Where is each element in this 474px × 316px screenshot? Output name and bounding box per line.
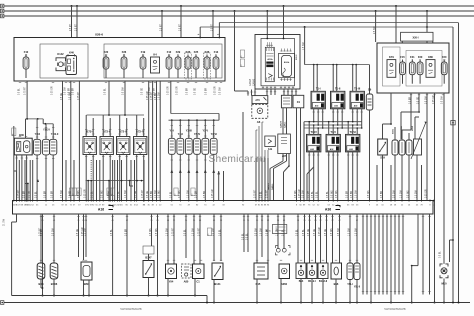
svg-text:Shemicar.ru: Shemicar.ru	[209, 154, 266, 165]
svg-text:T1-II: T1-II	[335, 87, 341, 91]
svg-text:0.5 SW: 0.5 SW	[338, 228, 340, 236]
svg-text:0.5 SW: 0.5 SW	[303, 190, 305, 198]
svg-text:0.5 BL: 0.5 BL	[261, 191, 263, 198]
svg-text:0.5 BR: 0.5 BR	[151, 191, 153, 198]
svg-text:K80: K80	[428, 55, 433, 59]
svg-text:31 SW: 31 SW	[4, 218, 6, 226]
svg-text:0.35 GR: 0.35 GR	[299, 189, 301, 198]
svg-text:0.5 BR: 0.5 BR	[351, 191, 353, 198]
svg-text:F13: F13	[214, 50, 219, 54]
svg-text:0.5 BL: 0.5 BL	[170, 191, 172, 198]
svg-text:F26: F26	[122, 50, 127, 54]
svg-text:0.5 WS: 0.5 WS	[159, 190, 161, 198]
svg-text:0.5 SW: 0.5 SW	[53, 228, 55, 236]
svg-text:0.5 BL: 0.5 BL	[36, 191, 38, 198]
svg-text:F15: F15	[400, 55, 405, 59]
svg-text:0.5 BR: 0.5 BR	[204, 191, 206, 198]
svg-text:0.75 RT: 0.75 RT	[173, 227, 175, 236]
svg-text:Y102-I: Y102-I	[43, 130, 50, 132]
svg-text:B141: B141	[214, 282, 221, 286]
svg-text:C9: C9	[368, 88, 372, 92]
svg-text:0.5 BR: 0.5 BR	[126, 229, 128, 236]
svg-text:0.75 RT: 0.75 RT	[142, 189, 144, 198]
svg-text:0.5 GE: 0.5 GE	[325, 228, 327, 236]
svg-text:X26-6: X26-6	[95, 32, 103, 36]
svg-text:0.35 GR: 0.35 GR	[85, 189, 87, 198]
svg-text:Y104: Y104	[35, 133, 41, 136]
svg-text:0.5 BR: 0.5 BR	[45, 191, 47, 198]
svg-text:A10b: A10b	[267, 58, 273, 61]
svg-text:0.5 WS: 0.5 WS	[179, 190, 181, 198]
svg-text:0.5 GE: 0.5 GE	[29, 190, 31, 198]
svg-text:0.5 BL: 0.5 BL	[185, 229, 187, 236]
svg-text:0.5 BR: 0.5 BR	[52, 191, 54, 198]
svg-text:F19: F19	[141, 50, 146, 54]
svg-text:C1: C1	[196, 280, 200, 284]
svg-text:CAN-H: CAN-H	[280, 121, 283, 128]
svg-text:1.0 SW: 1.0 SW	[159, 92, 161, 100]
svg-text:0.5 BL: 0.5 BL	[243, 233, 245, 240]
svg-text:0.5 BL: 0.5 BL	[312, 191, 314, 198]
svg-text:0.5 GE: 0.5 GE	[135, 190, 137, 198]
svg-text:CAN-B: CAN-B	[252, 78, 255, 86]
svg-text:0.35 GR: 0.35 GR	[177, 86, 179, 95]
svg-text:0.5 BL: 0.5 BL	[118, 191, 120, 198]
svg-text:F10: F10	[24, 50, 29, 54]
svg-text:0.5 BL: 0.5 BL	[19, 88, 21, 95]
svg-text:0.5 GE: 0.5 GE	[142, 87, 144, 95]
svg-text:0.35 GR: 0.35 GR	[215, 86, 217, 95]
svg-text:0.5 WS: 0.5 WS	[102, 190, 104, 198]
svg-text:2.5 RT: 2.5 RT	[161, 24, 163, 31]
svg-text:0.5 SW: 0.5 SW	[442, 96, 444, 104]
svg-text:0.5 SW: 0.5 SW	[65, 87, 67, 95]
svg-text:0.5 BL: 0.5 BL	[297, 229, 299, 236]
svg-text:0.75 RT: 0.75 RT	[255, 189, 257, 198]
svg-text:F20: F20	[442, 55, 447, 59]
svg-text:5117W3117Bx8117B: 5117W3117Bx8117B	[120, 309, 142, 311]
svg-text:A16b: A16b	[284, 61, 290, 64]
svg-text:T1-I: T1-I	[316, 87, 321, 91]
svg-text:0.5 BR: 0.5 BR	[381, 191, 383, 198]
svg-text:0.5 BR: 0.5 BR	[347, 191, 349, 198]
svg-text:R15: R15	[256, 282, 261, 286]
svg-text:0.5 BL: 0.5 BL	[105, 88, 107, 95]
svg-text:1.0 SW: 1.0 SW	[125, 190, 127, 198]
svg-text:0.35 GR: 0.35 GR	[319, 227, 321, 236]
svg-text:K79: K79	[389, 55, 394, 59]
svg-text:A76: A76	[255, 99, 260, 102]
svg-text:0.5 BR: 0.5 BR	[24, 191, 26, 198]
svg-text:1.0 SW: 1.0 SW	[261, 228, 263, 236]
svg-text:CAN-L: CAN-L	[271, 183, 274, 190]
svg-text:0.35 GR: 0.35 GR	[212, 189, 214, 198]
svg-text:CAN-H: CAN-H	[267, 183, 270, 190]
svg-text:2.5 RT: 2.5 RT	[76, 24, 78, 31]
svg-text:X1: X1	[297, 100, 301, 104]
svg-text:0.35 GR: 0.35 GR	[426, 189, 428, 198]
svg-text:X26-II: X26-II	[296, 54, 298, 60]
svg-text:1.0 SW: 1.0 SW	[167, 228, 169, 236]
svg-text:F29: F29	[176, 50, 181, 54]
svg-text:BY15: BY15	[266, 231, 272, 233]
svg-text:0.5 SW: 0.5 SW	[123, 87, 125, 95]
svg-text:A36: A36	[325, 207, 331, 211]
svg-text:1.0 SW: 1.0 SW	[416, 190, 418, 198]
svg-text:1.0 SW: 1.0 SW	[356, 228, 358, 236]
svg-text:0.5 BR: 0.5 BR	[73, 88, 75, 95]
svg-text:0.5 WS: 0.5 WS	[408, 190, 410, 198]
svg-text:0.5 SW: 0.5 SW	[213, 228, 215, 236]
svg-text:0.5 SW: 0.5 SW	[394, 190, 396, 198]
svg-text:0.5 WS: 0.5 WS	[150, 228, 152, 236]
svg-text:0.5 BL: 0.5 BL	[303, 229, 305, 236]
svg-text:0.5 WS: 0.5 WS	[332, 190, 334, 198]
svg-text:0.5 BR: 0.5 BR	[308, 191, 310, 198]
svg-text:0.75 RT: 0.75 RT	[25, 86, 27, 95]
svg-text:0.75 RT: 0.75 RT	[267, 189, 269, 198]
svg-text:2.5 RT: 2.5 RT	[70, 24, 72, 31]
svg-text:0.75 RT: 0.75 RT	[78, 91, 80, 100]
svg-text:0.75 RT: 0.75 RT	[151, 91, 153, 100]
svg-text:Y94: Y94	[169, 280, 174, 284]
svg-text:0.5 GE: 0.5 GE	[195, 87, 197, 95]
svg-text:0.5 BR: 0.5 BR	[155, 93, 157, 100]
svg-text:X26-I: X26-I	[413, 37, 419, 40]
svg-text:1.0 SW: 1.0 SW	[356, 190, 358, 198]
svg-text:0.5 BL: 0.5 BL	[111, 229, 113, 236]
svg-text:K26: K26	[205, 50, 210, 54]
svg-text:1.0 SW: 1.0 SW	[155, 190, 157, 198]
svg-text:2.5 SW: 2.5 SW	[374, 26, 376, 34]
svg-text:T1-III: T1-III	[354, 87, 360, 91]
svg-text:0.5 BL: 0.5 BL	[440, 251, 442, 258]
svg-text:0.35 GR: 0.35 GR	[52, 86, 54, 95]
svg-text:K4: K4	[153, 52, 157, 56]
svg-text:A6: A6	[257, 120, 261, 124]
svg-text:A1b: A1b	[268, 148, 273, 151]
svg-text:1.0 SW: 1.0 SW	[349, 228, 351, 236]
svg-text:0.5 SW: 0.5 SW	[69, 92, 71, 100]
svg-text:0.75 RT: 0.75 RT	[199, 227, 201, 236]
svg-text:0.5 WS: 0.5 WS	[331, 228, 333, 236]
svg-text:0.5 GE: 0.5 GE	[147, 190, 149, 198]
svg-text:B72-II: B72-II	[103, 130, 111, 134]
svg-text:2.5 RT: 2.5 RT	[180, 24, 182, 31]
svg-text:1.0 SW: 1.0 SW	[401, 190, 403, 198]
svg-text:1.0 SW: 1.0 SW	[193, 228, 195, 236]
svg-text:0.5 BL: 0.5 BL	[327, 191, 329, 198]
svg-text:F31: F31	[410, 55, 415, 59]
svg-text:0.5 GE: 0.5 GE	[314, 228, 316, 236]
svg-text:0.5 BL: 0.5 BL	[317, 191, 319, 198]
svg-text:0.5 SW: 0.5 SW	[61, 190, 63, 198]
svg-text:S101: S101	[393, 128, 395, 134]
svg-text:F12: F12	[167, 50, 172, 54]
svg-text:K26: K26	[186, 50, 191, 54]
svg-text:0.35 GR: 0.35 GR	[168, 86, 170, 95]
svg-text:1.0 SW: 1.0 SW	[277, 228, 279, 236]
svg-text:0.5 GE: 0.5 GE	[77, 228, 79, 236]
svg-text:0.5 BL: 0.5 BL	[247, 233, 249, 240]
svg-text:CAN-B: CAN-B	[249, 78, 252, 86]
svg-text:0.5 WS: 0.5 WS	[156, 228, 158, 236]
svg-text:1.0 SW: 1.0 SW	[187, 190, 189, 198]
svg-text:0.5 WS: 0.5 WS	[336, 190, 338, 198]
svg-text:B72-I: B72-I	[86, 130, 93, 134]
svg-text:0.5 BR: 0.5 BR	[206, 88, 208, 95]
svg-text:F25: F25	[194, 50, 199, 54]
svg-text:CAN-L: CAN-L	[283, 121, 286, 128]
svg-text:S260: S260	[281, 282, 288, 286]
svg-text:0.5 WS: 0.5 WS	[295, 190, 297, 198]
svg-text:0.5 WS: 0.5 WS	[368, 190, 370, 198]
svg-text:1.5 SW: 1.5 SW	[303, 42, 305, 50]
svg-text:K46: K46	[69, 51, 74, 55]
svg-text:0.5 SW: 0.5 SW	[220, 87, 222, 95]
svg-text:K142: K142	[57, 52, 64, 56]
svg-text:0.5 GE: 0.5 GE	[308, 228, 310, 236]
svg-text:0.75 RT: 0.75 RT	[18, 189, 20, 198]
svg-text:F30: F30	[418, 55, 423, 59]
svg-text:A80: A80	[184, 280, 189, 284]
svg-text:A16: A16	[98, 207, 104, 211]
svg-text:1.0 SW: 1.0 SW	[85, 228, 87, 236]
svg-text:0.5 BL: 0.5 BL	[283, 229, 285, 236]
svg-text:0.35 GR: 0.35 GR	[147, 91, 149, 100]
svg-text:0.5 SW: 0.5 SW	[256, 228, 258, 236]
svg-text:0.5 BR: 0.5 BR	[187, 88, 189, 95]
svg-text:0.5 BR: 0.5 BR	[41, 229, 43, 236]
svg-text:S250: S250	[412, 125, 414, 131]
svg-text:F22: F22	[104, 50, 109, 54]
svg-text:0.5 BR: 0.5 BR	[196, 191, 198, 198]
svg-text:0.5 BL: 0.5 BL	[92, 191, 94, 198]
svg-text:5117W3117Bx8117B: 5117W3117Bx8117B	[384, 309, 406, 311]
svg-text:0.5 BL: 0.5 BL	[220, 229, 222, 236]
svg-text:0.5 GE: 0.5 GE	[61, 92, 63, 100]
svg-text:Y102-II: Y102-II	[51, 134, 59, 136]
